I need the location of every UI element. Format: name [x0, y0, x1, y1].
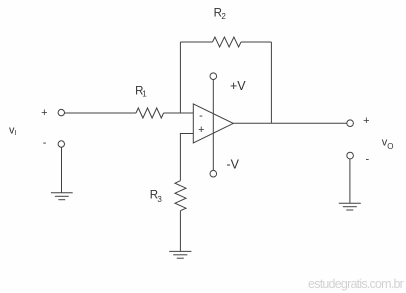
wire: right vertical from R2 down to output	[270, 42, 272, 123]
svg-text:-: -	[43, 137, 47, 149]
wire: R2 to top right corner	[241, 41, 271, 43]
svg-text:R2: R2	[214, 8, 227, 22]
resistor R1	[136, 108, 164, 118]
svg-text:-: -	[199, 110, 203, 122]
wire: top left horizontal to R2	[180, 41, 212, 43]
resistor R2	[213, 37, 242, 47]
svg-text:vI: vI	[9, 124, 17, 137]
svg-text:-: -	[365, 154, 369, 166]
wire: R3 to ground	[179, 211, 181, 252]
op-amp U1 triangle	[193, 104, 233, 143]
wire: op-amp non-inverting input stub	[180, 134, 193, 181]
svg-text:R3: R3	[150, 190, 163, 204]
wire: op-amp output to output terminal	[233, 122, 346, 124]
wire: input terminal to R1	[65, 112, 137, 114]
wire: output - terminal to ground	[349, 159, 351, 203]
wire: R1 to op-amp inverting input	[164, 112, 194, 114]
wire: power rail through op-amp (+V to -V)	[212, 80, 214, 171]
node: -V terminal circle	[210, 170, 217, 177]
node: +V terminal circle	[210, 73, 217, 80]
resistor R3	[175, 181, 186, 211]
svg-text:-V: -V	[227, 157, 240, 171]
wire: input - terminal to ground	[61, 147, 63, 193]
node: output - terminal circle	[347, 152, 354, 159]
svg-text:vO: vO	[382, 136, 394, 151]
svg-text:estudegratis.com.br: estudegratis.com.br	[308, 277, 404, 291]
node: input - terminal circle	[58, 141, 64, 147]
svg-text:R1: R1	[135, 85, 147, 98]
ground: below R3	[169, 251, 191, 258]
ground: input side	[51, 193, 73, 200]
svg-text:+: +	[363, 115, 369, 127]
node: input + terminal circle	[58, 109, 64, 115]
node: output + terminal circle	[347, 120, 354, 127]
wire: feedback vertical (node between R1 and op-amp up to R2)	[179, 42, 181, 113]
svg-text:+V: +V	[230, 79, 246, 93]
svg-text:+: +	[198, 124, 204, 136]
ground: output side	[339, 203, 361, 210]
svg-text:+: +	[41, 107, 47, 119]
